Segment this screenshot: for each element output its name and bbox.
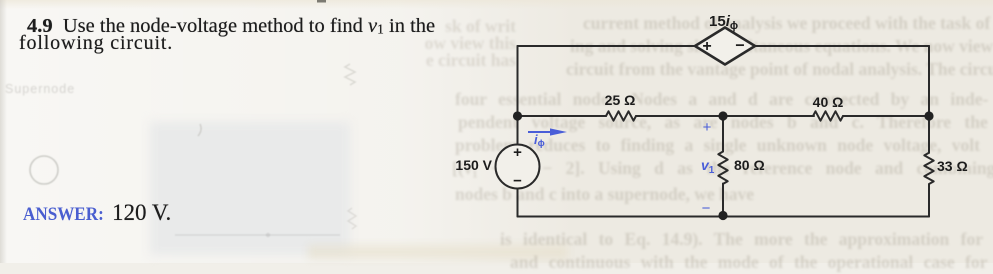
node D junction dot (924, 111, 933, 120)
bottom cream band (308, 245, 568, 259)
wire left vertical top (517, 46, 519, 145)
wire top left (518, 45, 696, 47)
wire right vertical bottom (928, 184, 930, 216)
svg-text:−: − (513, 173, 522, 190)
wire right vertical top (928, 46, 930, 153)
svg-text:+: + (702, 38, 711, 55)
problem statement (27, 15, 435, 38)
svg-text:33 Ω: 33 Ω (937, 158, 968, 174)
resistor 80 ohm (718, 152, 727, 184)
wire bottom (518, 216, 930, 218)
answer line (23, 204, 104, 226)
node C junction dot (718, 211, 727, 220)
wire middle horizontal center (636, 115, 814, 117)
resistor 33 ohm (924, 153, 933, 184)
wire left vertical bottom (517, 189, 519, 217)
node A junction dot (513, 111, 522, 120)
scanner cool light patch (150, 122, 350, 255)
resistor 40 ohm (813, 111, 843, 120)
svg-text:40 Ω: 40 Ω (813, 94, 844, 110)
svg-text:25 Ω: 25 Ω (605, 92, 636, 108)
svg-text:+: + (513, 144, 522, 161)
independent voltage source 150 V (circle) (496, 145, 540, 189)
wire middle horizontal right (843, 115, 929, 117)
wire middle branch bottom (722, 184, 724, 216)
ghost word Supernode (5, 82, 75, 96)
svg-text:v1: v1 (701, 157, 715, 176)
current arrow i-phi (528, 128, 567, 135)
ghost circle (0, 0, 400, 263)
bleed-through text column (back of page) (420, 15, 516, 38)
wire middle branch top (722, 116, 724, 152)
svg-text:150 V: 150 V (455, 157, 492, 173)
svg-text:−: − (702, 200, 711, 217)
resistor 25 ohm (606, 111, 636, 120)
node B junction dot (718, 111, 727, 120)
wire middle horizontal left (518, 115, 607, 117)
wire top right (755, 45, 929, 47)
dependent voltage source 15i-phi (diamond) (695, 28, 755, 65)
svg-text:+: + (703, 119, 712, 136)
svg-text:iϕ: iϕ (534, 132, 545, 149)
svg-text:−: − (735, 38, 744, 55)
svg-text:80 Ω: 80 Ω (734, 157, 765, 173)
svg-text:15iϕ: 15iϕ (709, 13, 738, 32)
